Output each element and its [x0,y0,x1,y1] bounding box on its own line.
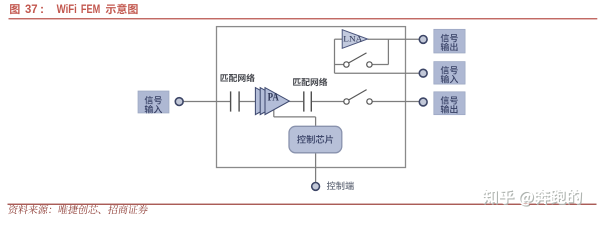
svg-text:PA: PA [268,91,280,103]
svg-text:LNA: LNA [343,34,363,44]
svg-text:WiFi: WiFi [57,2,77,16]
svg-text:37: 37 [25,2,38,16]
svg-text:FEM: FEM [81,2,100,16]
svg-text::: : [40,2,44,16]
